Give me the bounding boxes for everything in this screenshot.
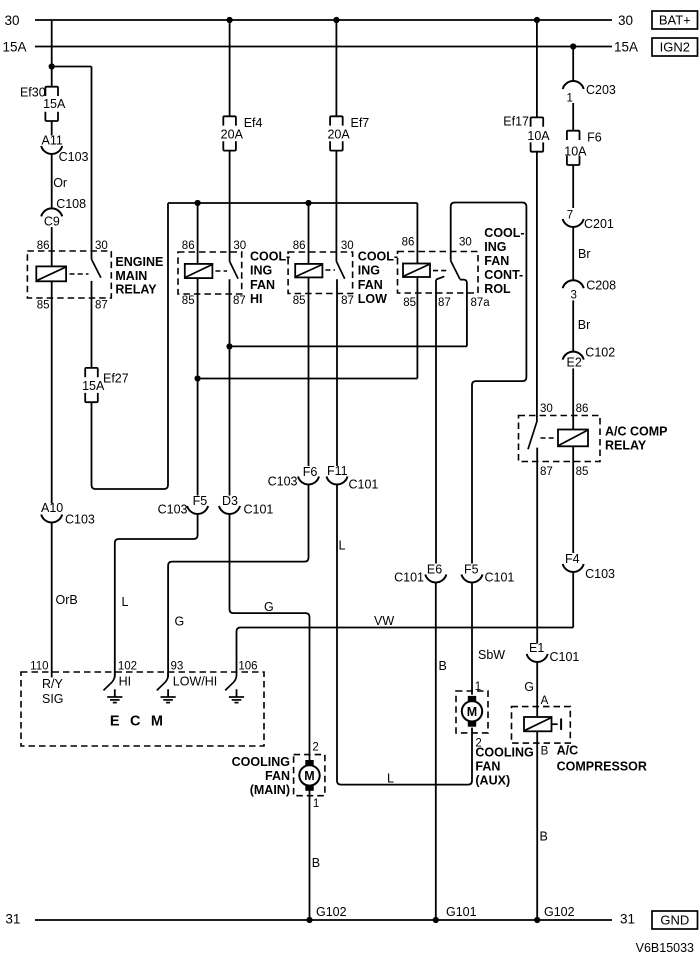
svg-text:V6B15033: V6B15033 <box>636 941 694 955</box>
svg-text:Or: Or <box>53 176 67 190</box>
svg-text:87: 87 <box>341 295 354 307</box>
svg-text:A/C: A/C <box>557 744 579 758</box>
svg-text:87: 87 <box>438 297 451 309</box>
svg-text:Ef17: Ef17 <box>503 115 529 129</box>
svg-text:(MAIN): (MAIN) <box>250 783 290 797</box>
svg-text:B: B <box>439 659 447 673</box>
svg-text:C201: C201 <box>584 217 614 231</box>
svg-text:CONT-: CONT- <box>484 268 523 282</box>
svg-text:85: 85 <box>403 297 416 309</box>
svg-text:87: 87 <box>233 295 246 307</box>
svg-text:MAIN: MAIN <box>115 269 147 283</box>
svg-text:Ef7: Ef7 <box>351 116 370 130</box>
svg-text:C101: C101 <box>394 571 424 585</box>
svg-text:COOL-: COOL- <box>358 249 398 263</box>
svg-text:L: L <box>122 595 129 609</box>
svg-text:30: 30 <box>5 13 20 28</box>
svg-text:30: 30 <box>540 403 553 415</box>
svg-text:COOL-: COOL- <box>484 226 524 240</box>
svg-text:Ef27: Ef27 <box>103 372 129 386</box>
svg-text:30: 30 <box>341 240 354 252</box>
svg-text:E6: E6 <box>427 563 442 577</box>
svg-text:C103: C103 <box>65 512 95 526</box>
svg-text:ING: ING <box>484 240 506 254</box>
svg-text:85: 85 <box>37 300 50 312</box>
svg-text:30: 30 <box>233 240 246 252</box>
svg-text:G: G <box>264 600 274 614</box>
svg-text:15A: 15A <box>614 39 638 54</box>
svg-text:SIG: SIG <box>42 692 64 706</box>
svg-text:1: 1 <box>567 93 573 105</box>
svg-text:85: 85 <box>576 466 589 478</box>
svg-text:C103: C103 <box>59 150 89 164</box>
svg-text:F5: F5 <box>193 494 208 508</box>
svg-text:85: 85 <box>182 295 195 307</box>
svg-text:20A: 20A <box>327 127 350 141</box>
svg-text:M: M <box>467 705 477 719</box>
svg-text:FAN: FAN <box>484 254 509 268</box>
svg-text:LOW: LOW <box>358 292 387 306</box>
svg-text:LOW/HI: LOW/HI <box>173 675 217 689</box>
svg-text:GND: GND <box>660 913 689 928</box>
svg-text:C103: C103 <box>268 475 298 489</box>
svg-text:E2: E2 <box>567 356 582 370</box>
svg-text:C208: C208 <box>586 279 616 293</box>
svg-text:C102: C102 <box>585 346 615 360</box>
svg-text:87: 87 <box>95 300 108 312</box>
svg-text:FAN: FAN <box>265 769 290 783</box>
svg-text:86: 86 <box>182 240 195 252</box>
svg-text:ING: ING <box>250 264 272 278</box>
svg-text:HI: HI <box>250 292 263 306</box>
svg-text:RELAY: RELAY <box>115 283 157 297</box>
svg-text:F11: F11 <box>327 464 348 478</box>
svg-text:15A: 15A <box>3 39 27 54</box>
svg-text:R/Y: R/Y <box>42 677 64 691</box>
svg-text:VW: VW <box>374 614 394 628</box>
svg-text:OrB: OrB <box>56 593 78 607</box>
svg-text:93: 93 <box>171 661 184 673</box>
svg-text:G: G <box>175 615 185 629</box>
svg-text:1: 1 <box>313 798 319 810</box>
svg-text:ING: ING <box>358 264 380 278</box>
svg-text:B: B <box>541 746 549 758</box>
svg-text:C101: C101 <box>244 503 274 517</box>
svg-text:SbW: SbW <box>478 648 505 662</box>
svg-text:87: 87 <box>540 466 553 478</box>
svg-text:M: M <box>304 769 314 783</box>
svg-text:COMPRESSOR: COMPRESSOR <box>557 759 647 773</box>
svg-text:C101: C101 <box>485 571 515 585</box>
svg-text:RELAY: RELAY <box>605 439 647 453</box>
svg-text:D3: D3 <box>222 494 238 508</box>
svg-text:A11: A11 <box>42 134 63 148</box>
svg-text:Br: Br <box>578 318 591 332</box>
svg-text:HI: HI <box>119 675 132 689</box>
svg-text:Ef30: Ef30 <box>20 86 46 100</box>
svg-text:FAN: FAN <box>250 278 275 292</box>
svg-text:B: B <box>540 830 548 844</box>
svg-text:B: B <box>312 856 320 870</box>
svg-text:106: 106 <box>238 661 257 673</box>
svg-text:110: 110 <box>30 661 48 673</box>
svg-text:86: 86 <box>576 403 589 415</box>
svg-text:G: G <box>524 680 534 694</box>
svg-text:E1: E1 <box>529 641 544 655</box>
svg-text:ENGINE: ENGINE <box>115 255 163 269</box>
svg-text:C203: C203 <box>586 83 616 97</box>
svg-text:30: 30 <box>618 13 633 28</box>
svg-text:F5: F5 <box>464 563 479 577</box>
svg-text:Ef4: Ef4 <box>244 116 263 130</box>
svg-text:85: 85 <box>293 295 306 307</box>
svg-text:F6: F6 <box>587 130 602 144</box>
svg-text:2: 2 <box>312 742 318 754</box>
svg-text:30: 30 <box>459 237 472 249</box>
svg-text:COOLING: COOLING <box>232 755 290 769</box>
svg-text:31: 31 <box>5 912 20 927</box>
svg-text:F6: F6 <box>303 465 318 479</box>
svg-text:IGN2: IGN2 <box>660 40 690 55</box>
svg-text:FAN: FAN <box>358 278 383 292</box>
svg-text:3: 3 <box>571 290 577 302</box>
svg-text:87a: 87a <box>471 297 491 309</box>
svg-text:ROL: ROL <box>484 282 511 296</box>
svg-text:7: 7 <box>567 210 573 222</box>
svg-text:15A: 15A <box>82 379 105 393</box>
svg-text:A/C COMP: A/C COMP <box>605 425 668 439</box>
svg-text:COOLING: COOLING <box>475 746 533 760</box>
svg-text:A: A <box>541 695 549 707</box>
svg-text:31: 31 <box>620 912 635 927</box>
svg-text:COOL-: COOL- <box>250 249 290 263</box>
svg-text:C103: C103 <box>158 503 188 517</box>
svg-text:E C M: E C M <box>110 714 166 730</box>
svg-text:86: 86 <box>293 240 306 252</box>
svg-text:F4: F4 <box>565 552 580 566</box>
svg-text:BAT+: BAT+ <box>659 13 691 28</box>
svg-text:86: 86 <box>402 237 415 249</box>
svg-text:10A: 10A <box>527 129 550 143</box>
svg-text:G102: G102 <box>316 905 347 919</box>
svg-text:102: 102 <box>118 661 137 673</box>
svg-text:15A: 15A <box>43 97 66 111</box>
svg-text:G101: G101 <box>446 905 477 919</box>
svg-text:C101: C101 <box>550 650 580 664</box>
svg-text:(AUX): (AUX) <box>475 774 510 788</box>
svg-text:C101: C101 <box>349 478 379 492</box>
svg-text:Br: Br <box>578 247 591 261</box>
svg-text:10A: 10A <box>564 145 587 159</box>
svg-text:L: L <box>387 772 394 786</box>
svg-text:G102: G102 <box>544 905 575 919</box>
svg-text:C9: C9 <box>44 215 60 229</box>
svg-text:FAN: FAN <box>475 760 500 774</box>
svg-text:L: L <box>339 539 346 553</box>
svg-text:C103: C103 <box>585 567 615 581</box>
svg-text:C108: C108 <box>56 197 86 211</box>
svg-text:20A: 20A <box>221 127 244 141</box>
svg-text:A10: A10 <box>41 501 63 515</box>
